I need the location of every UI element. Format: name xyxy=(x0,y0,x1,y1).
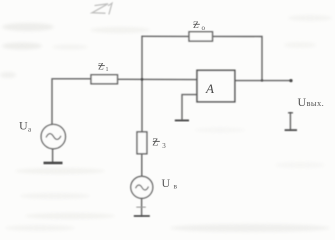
wire: left vertical + input horizontal to Z1 xyxy=(52,79,91,125)
node label Uвых (output voltage) xyxy=(298,95,325,109)
wire: Z3 bottom to UB source xyxy=(141,154,143,176)
source UA xyxy=(41,124,65,148)
pencil title Z1 xyxy=(92,3,112,14)
node: output terminal dot xyxy=(289,79,292,82)
svg-text:Z: Z xyxy=(193,21,199,31)
source UB xyxy=(131,176,153,198)
ground (amp) xyxy=(175,120,189,122)
svg-text:U: U xyxy=(298,95,307,109)
node: feedback/input junction xyxy=(141,78,143,80)
svg-text:A: A xyxy=(205,81,214,96)
wire: UB source bottom lead xyxy=(141,198,143,215)
svg-text:o: o xyxy=(202,24,206,32)
wire: UA source bottom lead xyxy=(52,149,54,163)
svg-text:Z: Z xyxy=(98,62,104,72)
svg-text:вых.: вых. xyxy=(307,98,325,108)
svg-text:U: U xyxy=(19,119,28,133)
svg-text:1: 1 xyxy=(106,67,109,73)
wire: junction vertical (feedback tap down to Z3) xyxy=(141,36,143,132)
op-amp U1 (amplifier block A) xyxy=(197,70,235,102)
svg-text:U: U xyxy=(162,176,171,190)
wire: Zo right then down to output xyxy=(213,36,263,80)
ground (below UA) xyxy=(44,162,63,165)
node: feedback/output junction xyxy=(261,79,263,81)
resistor Zo xyxy=(189,21,213,41)
wire: amp ground connection xyxy=(182,95,197,120)
wire: right ground lead xyxy=(289,113,291,130)
ground (output, right) xyxy=(285,112,297,131)
svg-text:в: в xyxy=(174,182,178,191)
wire: amp output to terminal xyxy=(235,80,291,82)
wire: top feedback horizontal to Zo xyxy=(142,35,189,37)
resistor Z1 xyxy=(91,62,118,84)
wire: small tick on UB lower lead xyxy=(136,207,146,208)
wire: Z1 right to amp input xyxy=(118,78,198,80)
svg-text:Z: Z xyxy=(152,137,158,148)
svg-text:3: 3 xyxy=(162,142,166,150)
resistor Z3 xyxy=(137,132,166,154)
ground (below UB) xyxy=(134,215,150,217)
